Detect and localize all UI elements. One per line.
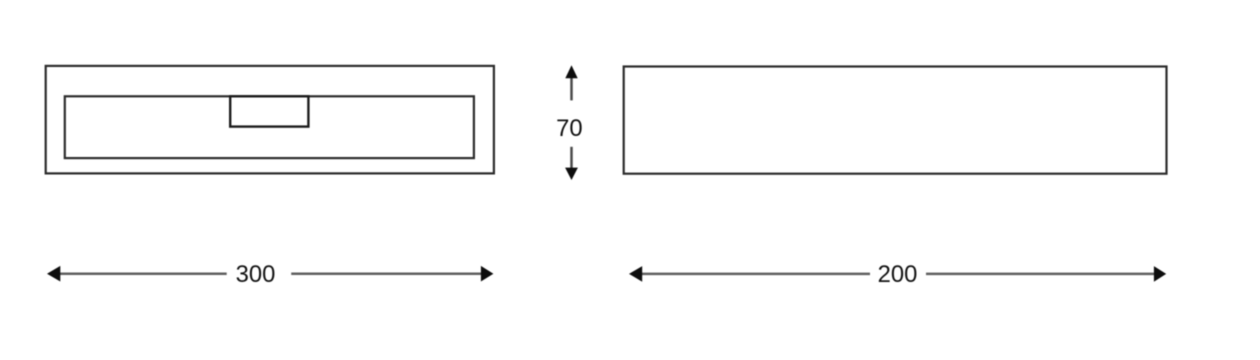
dimension line 200 left segment <box>641 273 870 276</box>
arrowhead 200 left <box>629 266 642 282</box>
dimension line 300 left segment <box>59 272 227 275</box>
arrowhead 300 right <box>481 266 494 282</box>
inner rectangle left view <box>65 96 474 158</box>
outer rectangle left view <box>46 66 494 173</box>
svg-text:300: 300 <box>236 261 276 288</box>
svg-text:200: 200 <box>878 261 918 288</box>
small notch rectangle <box>230 96 308 126</box>
vertical dimension 70 down arrow <box>565 147 578 180</box>
dimension label 300 <box>236 261 276 288</box>
dimension label 200 <box>878 261 918 288</box>
dimension line 300 right segment <box>291 272 482 275</box>
arrowhead 200 right <box>1154 266 1166 282</box>
rectangle right view <box>624 67 1167 174</box>
svg-text:70: 70 <box>556 115 582 142</box>
arrowhead 300 left <box>47 266 60 282</box>
dimension line 200 right segment <box>926 273 1155 276</box>
dimension label 70 <box>556 115 582 142</box>
vertical dimension 70 up arrow <box>565 65 577 100</box>
